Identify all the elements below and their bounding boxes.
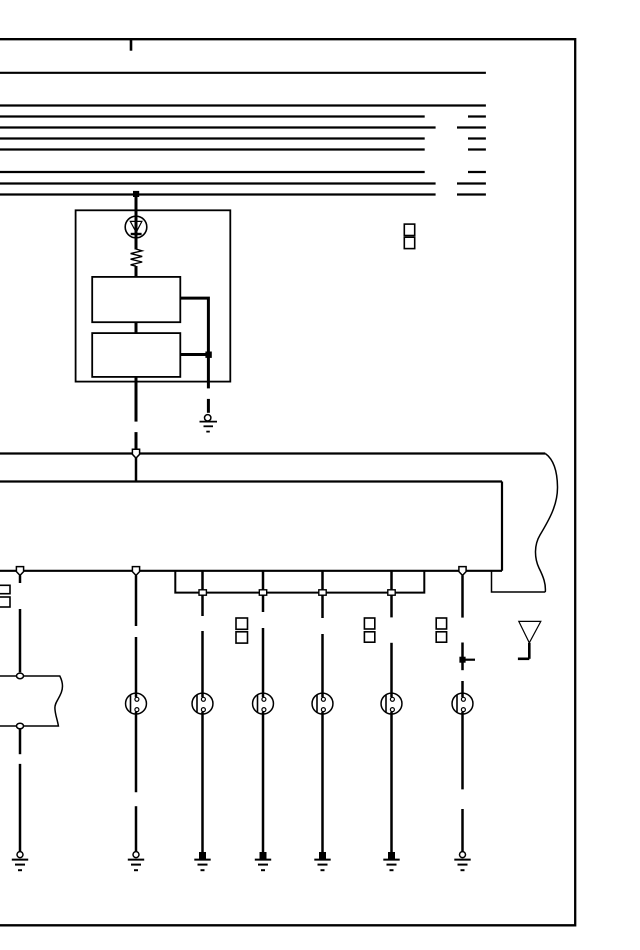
junction square J1 (199, 590, 206, 595)
wire col20 mid (19, 609, 22, 672)
wire pin to box (135, 458, 138, 482)
wire block1 to block2 (135, 322, 138, 333)
connector squares pair E (436, 618, 446, 642)
wire col462 upper (461, 576, 464, 618)
gauge box right edge (501, 482, 503, 571)
ground G4 bolt (194, 852, 210, 870)
junction dot on bus y194 (133, 191, 139, 197)
torn edge wave right (535, 454, 557, 593)
wire col20 lower (19, 729, 22, 754)
connector squares pair D (364, 618, 374, 642)
ground G7 bolt (383, 852, 399, 870)
LED indicator circle (125, 216, 147, 238)
junction square J4 (388, 590, 395, 595)
torn box component (0, 676, 63, 726)
wire col462 to bulb (461, 681, 464, 697)
connector pin P2 (16, 567, 23, 576)
ground G6 bolt (314, 852, 330, 870)
wire col136 upper (135, 576, 138, 627)
connector squares pair B (0, 585, 10, 607)
wire col202 upper (201, 571, 204, 616)
wire tap from block2 (180, 353, 208, 356)
wire col462 lower (461, 712, 464, 790)
LED cathode bar (131, 233, 142, 235)
wire tap from block1 (180, 298, 208, 354)
wire col20 upper (19, 576, 22, 584)
ground G8 open (454, 852, 470, 871)
connector circle C1 (17, 673, 24, 679)
LED triangle (130, 221, 142, 232)
junction square J2 (259, 590, 266, 595)
ground G1 (200, 415, 218, 432)
junction dot col462 (459, 657, 465, 663)
wire stub right (463, 659, 476, 661)
wire col263 lower (262, 712, 265, 853)
connector pin P1 (132, 449, 139, 458)
wire col391 lower (390, 712, 393, 853)
wire bus line y149 (0, 148, 486, 150)
wire col391 upper (390, 571, 393, 618)
wire dash segment (207, 399, 210, 413)
wire col322 upper (321, 571, 324, 618)
wire col391 mid (390, 643, 393, 698)
wire col136 lower (135, 712, 138, 792)
gauge box bottom line y570 (0, 570, 502, 572)
wire bus line y105 (0, 104, 486, 106)
wire bus line y194 (0, 193, 486, 195)
inner block 1 (92, 277, 180, 322)
wire block2 down (135, 377, 138, 422)
wire col322 lower (321, 712, 324, 853)
wire dash below block2 (135, 432, 138, 452)
wire bus line y116 (0, 115, 486, 117)
wire col322 mid (321, 634, 324, 697)
wire col263 upper (262, 571, 265, 612)
connector squares pair C (236, 618, 248, 643)
wire LED to resistor (135, 234, 138, 250)
resistor R1 zigzag (131, 249, 143, 266)
connector squares pair A (404, 224, 414, 248)
wire bus line y172 (0, 171, 486, 173)
connector pin P4 (459, 567, 466, 576)
gauge box top line y481 (0, 480, 502, 482)
wire resistor to block1 (135, 266, 138, 278)
wire bus line y127 (0, 126, 486, 128)
wire from bus to LED (135, 195, 138, 235)
junction square J3 (319, 590, 326, 595)
ground G2 open (12, 852, 28, 871)
wire col263 mid (262, 628, 265, 697)
ground G5 bolt (255, 852, 271, 870)
sub-bus rail (175, 571, 424, 593)
bulb L2 (192, 693, 213, 714)
wire bus line y72 (0, 72, 486, 74)
bulb L3 (253, 693, 274, 714)
wire col462 tail (461, 809, 464, 851)
wire col462 mid with junction (461, 643, 464, 671)
wire col136 tail (135, 806, 138, 851)
wire col202 mid (201, 631, 204, 697)
connector circle C2 (17, 723, 24, 729)
bulb L4 (312, 693, 333, 714)
bulb L6 (452, 693, 473, 714)
bulb L5 (381, 693, 402, 714)
component box U1 (76, 210, 231, 381)
inner block 2 (92, 333, 180, 377)
junction dot tap (205, 352, 211, 358)
noise condenser symbol (518, 621, 541, 658)
torn bottom segment (492, 571, 546, 592)
ground G3 open (128, 852, 144, 871)
wire bus line y138 (0, 137, 486, 139)
harness top line y453 (0, 452, 545, 454)
wire col20 tail (19, 764, 22, 852)
connector pin P3 (132, 567, 139, 576)
wire col202 lower (201, 712, 204, 853)
section tick mark (130, 39, 133, 51)
bulb L1 (126, 693, 147, 714)
wire col136 mid (135, 637, 138, 697)
wire bus line y183 (0, 182, 486, 184)
wire tap down (207, 355, 210, 389)
